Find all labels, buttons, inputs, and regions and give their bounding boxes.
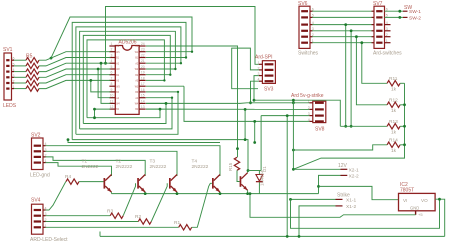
- svg-text:R14: R14: [389, 138, 398, 144]
- svg-text:2N2222: 2N2222: [116, 164, 133, 170]
- svg-text:R12: R12: [389, 98, 398, 104]
- svg-text:13: 13: [141, 105, 145, 109]
- svg-text:R5: R5: [26, 54, 33, 60]
- svg-text:R2: R2: [135, 214, 141, 220]
- svg-text:ARD-LED-Select: ARD-LED-Select: [30, 237, 68, 242]
- svg-text:5: 5: [111, 65, 113, 69]
- svg-text:21: 21: [141, 59, 145, 63]
- svg-text:3: 3: [312, 27, 314, 31]
- svg-text:T1: T1: [82, 158, 88, 164]
- svg-text:1k: 1k: [391, 148, 397, 154]
- svg-text:4: 4: [312, 21, 314, 25]
- svg-text:17: 17: [141, 82, 145, 86]
- svg-text:Switches: Switches: [298, 51, 319, 57]
- svg-text:VI: VI: [403, 198, 407, 203]
- svg-text:R15: R15: [228, 162, 233, 171]
- svg-text:Ard 5v-g-strike: Ard 5v-g-strike: [291, 93, 324, 99]
- svg-text:2N2222: 2N2222: [82, 164, 99, 170]
- svg-text:LEDS: LEDS: [3, 103, 17, 109]
- svg-text:16: 16: [141, 88, 145, 92]
- svg-text:SV3: SV3: [264, 87, 274, 93]
- svg-text:12: 12: [110, 105, 114, 109]
- svg-text:8: 8: [111, 82, 113, 86]
- svg-text:1: 1: [258, 61, 260, 65]
- svg-text:20: 20: [141, 65, 145, 69]
- svg-text:SV7: SV7: [373, 1, 383, 7]
- svg-text:4: 4: [111, 59, 113, 63]
- svg-text:T3: T3: [150, 158, 156, 164]
- svg-text:D1: D1: [262, 166, 267, 172]
- svg-text:GND: GND: [410, 205, 419, 210]
- svg-text:3: 3: [111, 54, 113, 58]
- svg-text:T4: T4: [192, 158, 198, 164]
- svg-text:11: 11: [110, 99, 114, 103]
- svg-text:R11: R11: [389, 76, 398, 82]
- svg-text:Ard-SPI: Ard-SPI: [255, 55, 273, 61]
- svg-text:R1: R1: [174, 220, 180, 226]
- svg-text:LED-gnd: LED-gnd: [30, 173, 50, 179]
- svg-text:SV1: SV1: [3, 47, 13, 53]
- svg-text:1k: 1k: [391, 129, 397, 135]
- svg-text:X2-2: X2-2: [349, 174, 359, 180]
- svg-text:6: 6: [111, 71, 113, 75]
- svg-text:X1-1: X1-1: [346, 198, 356, 204]
- svg-text:7: 7: [111, 76, 113, 80]
- svg-text:10: 10: [110, 94, 114, 98]
- svg-text:24: 24: [141, 42, 145, 46]
- svg-text:SV2: SV2: [31, 133, 41, 139]
- svg-text:1: 1: [312, 39, 314, 43]
- svg-text:+5: +5: [418, 212, 423, 217]
- svg-text:SW-1: SW-1: [409, 9, 421, 15]
- svg-text:12V: 12V: [338, 163, 348, 169]
- svg-text:19: 19: [141, 71, 145, 75]
- svg-text:18: 18: [141, 76, 145, 80]
- svg-text:X2-1: X2-1: [349, 167, 359, 173]
- svg-text:SV6: SV6: [298, 1, 308, 7]
- svg-text:SV8: SV8: [315, 127, 325, 133]
- svg-text:SV4: SV4: [31, 198, 41, 204]
- svg-text:1: 1: [111, 42, 113, 46]
- svg-text:2: 2: [111, 48, 113, 52]
- svg-text:VO: VO: [421, 198, 428, 203]
- svg-text:15: 15: [141, 94, 145, 98]
- svg-text:22: 22: [141, 54, 145, 58]
- svg-text:23: 23: [141, 48, 145, 52]
- svg-text:SW-2: SW-2: [409, 15, 421, 21]
- svg-text:1k: 1k: [391, 86, 397, 92]
- svg-text:R13: R13: [389, 119, 398, 125]
- svg-text:X1-2: X1-2: [346, 204, 356, 210]
- svg-text:5: 5: [312, 14, 314, 18]
- svg-text:Ard-switches: Ard-switches: [373, 51, 402, 57]
- svg-text:R3: R3: [107, 208, 113, 214]
- svg-text:6: 6: [312, 8, 314, 12]
- svg-text:T2: T2: [116, 158, 122, 164]
- svg-text:AD5206: AD5206: [119, 40, 137, 46]
- svg-text:2: 2: [312, 33, 314, 37]
- svg-text:1k: 1k: [391, 108, 397, 114]
- svg-text:R4: R4: [65, 174, 71, 180]
- svg-text:2N2222: 2N2222: [192, 164, 209, 170]
- svg-text:9: 9: [111, 88, 113, 92]
- svg-text:7805T: 7805T: [400, 188, 414, 194]
- svg-text:14: 14: [141, 99, 145, 103]
- svg-text:2N2222: 2N2222: [150, 164, 167, 170]
